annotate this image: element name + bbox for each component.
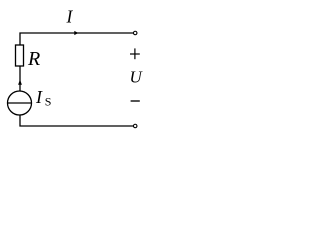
svg-text:U: U bbox=[130, 68, 144, 87]
svg-text:R: R bbox=[27, 48, 40, 70]
svg-text:I: I bbox=[35, 87, 43, 107]
svg-text:S: S bbox=[45, 94, 52, 108]
svg-text:I: I bbox=[66, 7, 74, 27]
